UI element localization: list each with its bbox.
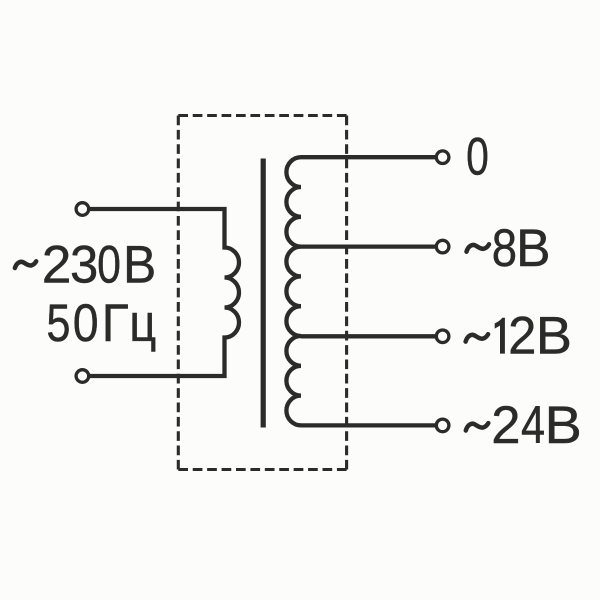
- terminal: secondary ~8В: [436, 240, 449, 253]
- svg-text:2: 2: [508, 306, 536, 365]
- svg-text:2: 2: [491, 396, 520, 455]
- svg-text:3: 3: [70, 235, 98, 294]
- svg-text:0: 0: [73, 293, 99, 352]
- transformer T1 dashed outline box: bottom edge: [178, 468, 346, 471]
- svg-text:В: В: [545, 395, 582, 454]
- wire: secondary tap ~12В: [301, 334, 436, 338]
- svg-text:0: 0: [466, 127, 489, 186]
- svg-text:ц: ц: [129, 294, 156, 353]
- svg-text:В: В: [516, 219, 550, 278]
- transformer T1 dashed outline box: left edge: [177, 116, 180, 470]
- wire: secondary winding W2 with top tap 0 and bottom tap ~24В: [286, 157, 435, 425]
- label: AC tilde of ~230В: [15, 261, 36, 268]
- transformer T1 dashed outline box: top edge: [178, 114, 346, 117]
- transformer T1 dashed outline box: right edge: [345, 116, 348, 470]
- label: AC tilde of ~8В: [467, 244, 490, 251]
- svg-text:4: 4: [521, 396, 545, 455]
- core (magnetic core bar): [261, 159, 266, 428]
- terminal: secondary ~24В: [436, 419, 449, 432]
- terminal: secondary 0: [436, 151, 449, 164]
- svg-text:В: В: [536, 307, 572, 365]
- terminal: secondary ~12В: [436, 330, 449, 343]
- svg-text:0: 0: [97, 236, 121, 294]
- label: AC tilde of ~12В: [466, 334, 489, 341]
- svg-text:В: В: [123, 235, 156, 294]
- terminal: primary input top: [76, 203, 89, 216]
- value label digit 1 of ~12В (custom glyph): [495, 318, 505, 354]
- svg-text:2: 2: [42, 236, 72, 295]
- wire: primary top lead, primary winding W1, primary bottom lead: [90, 209, 239, 376]
- label: AC tilde of ~24В: [466, 423, 489, 430]
- svg-text:5: 5: [46, 294, 70, 353]
- wire: secondary tap ~8В: [301, 244, 436, 248]
- svg-text:8: 8: [492, 219, 517, 278]
- svg-text:Г: Г: [102, 293, 129, 353]
- terminal: primary input bottom: [76, 370, 89, 383]
